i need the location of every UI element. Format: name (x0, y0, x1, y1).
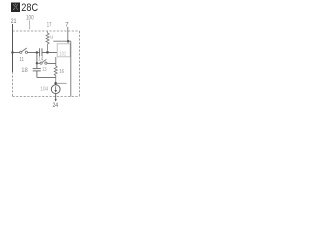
leader line from 100 (28, 21, 31, 30)
wire: current source to terminal 24 (55, 94, 57, 101)
terminal 21 lead wire (12, 24, 14, 31)
svg-text:101: 101 (59, 51, 66, 57)
wire: upper horizontal to right rail (53, 40, 71, 42)
node junction at switch 13 (36, 62, 38, 64)
wire: node down into block 101 (67, 41, 69, 44)
svg-text:7: 7 (65, 22, 69, 29)
wire: capacitor 18 bottom to resistor 16 bottom node (37, 76, 56, 78)
svg-text:u: u (50, 35, 53, 41)
wire: left rail to switch 11 (13, 52, 20, 54)
terminal 24 arrowhead (55, 99, 57, 101)
wire: right rail vertical (70, 41, 72, 96)
wire: block 101 bottom stub (55, 57, 57, 66)
current source 104 (51, 85, 60, 94)
resistor 17 (46, 32, 49, 53)
figure title 図28C (11, 2, 38, 14)
wire: switch 11 to node (28, 52, 37, 54)
node junction below resistor 17 (46, 51, 49, 54)
terminal 7 lead (67, 27, 69, 41)
capacitor 18 (33, 63, 41, 77)
node: junction on left rail (11, 51, 13, 53)
node junction at capacitor 12 input (36, 51, 38, 53)
svg-text:16: 16 (59, 69, 64, 75)
svg-text:14: 14 (38, 56, 43, 62)
wire: node to right rail (56, 82, 67, 84)
svg-text:28C: 28C (21, 2, 38, 14)
switch 13 (40, 59, 47, 64)
block 100 dashed border: left (12, 31, 14, 97)
svg-text:18: 18 (21, 68, 28, 74)
node junction above current source 104 (54, 82, 57, 85)
svg-text:24: 24 (53, 102, 59, 109)
block 100 dashed border: bottom (13, 96, 80, 98)
wire: node to block 101 (48, 52, 58, 54)
block 100 dashed border: top (13, 30, 80, 32)
wire: left rail (12, 31, 14, 72)
svg-text:11: 11 (19, 57, 24, 63)
svg-text:21: 21 (11, 18, 17, 25)
wire: node down from capacitor junction (36, 53, 38, 64)
svg-text:100: 100 (26, 14, 34, 21)
wire to switch 13 (37, 62, 40, 64)
block 100 dashed border: right (79, 31, 81, 97)
svg-text:17: 17 (47, 22, 52, 29)
resistor 16 (54, 66, 57, 83)
node junction on upper wire (67, 40, 69, 42)
wire: switch 13 to resistor 16 stub (47, 62, 56, 64)
capacitor 12 (37, 48, 48, 56)
switch 11 (20, 48, 28, 53)
block 101 (57, 44, 70, 58)
svg-text:104: 104 (40, 87, 48, 93)
svg-text:13: 13 (42, 67, 46, 73)
